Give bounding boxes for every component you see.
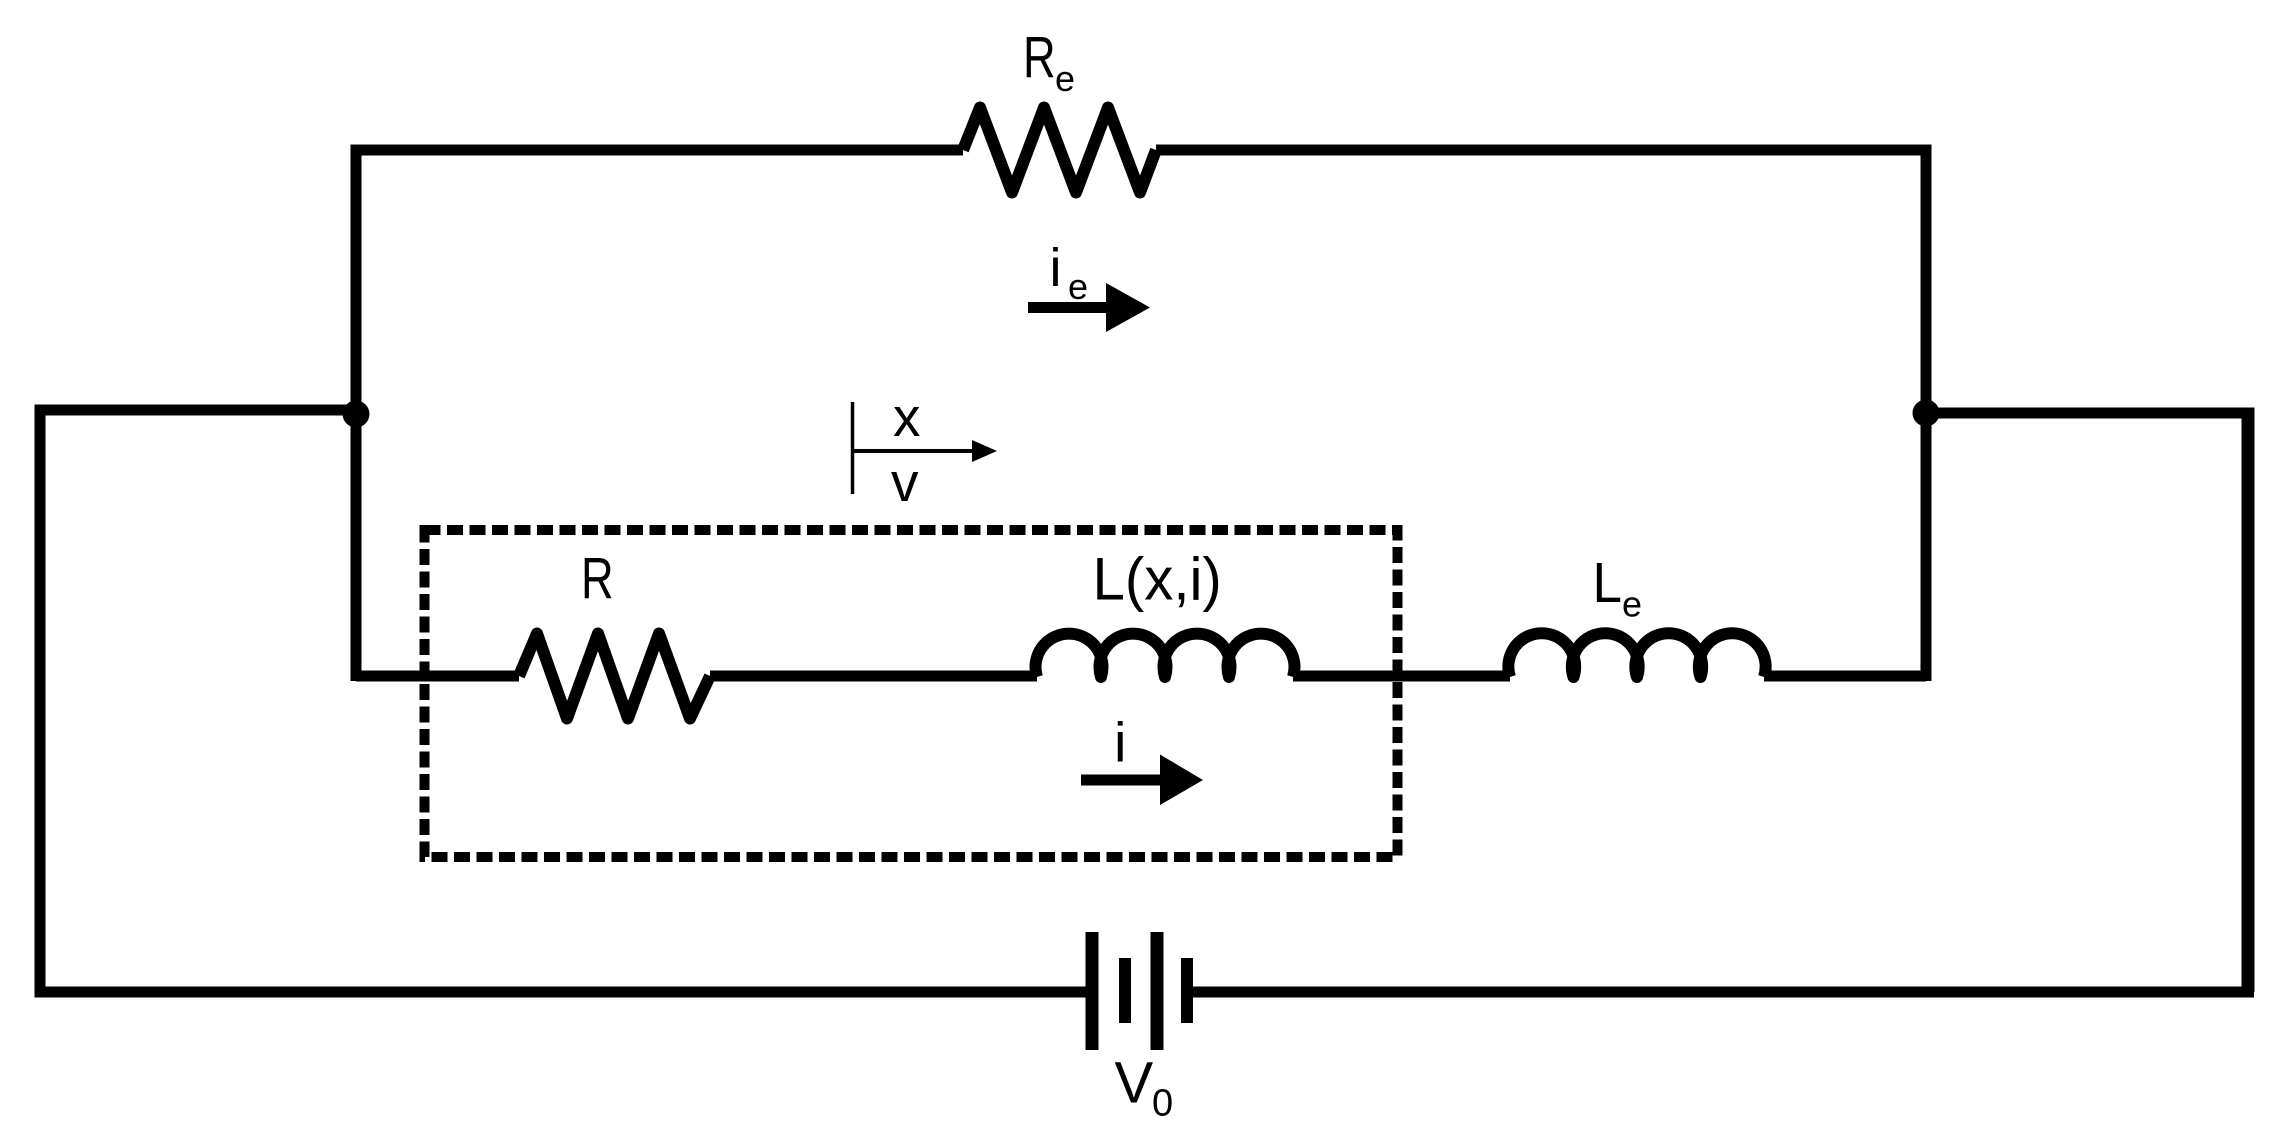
arrow i [1081, 775, 1166, 786]
wire: left branch vertical [351, 145, 362, 682]
resistor Re [963, 108, 1156, 193]
svg-text:e: e [1055, 58, 1075, 99]
svg-text:e: e [1068, 266, 1088, 307]
wire: outer right vertical [2242, 413, 2255, 992]
wire: R to L(x,i) [710, 671, 1037, 682]
dashed box (moving coil assembly) [425, 530, 1398, 857]
svg-text:e: e [1622, 584, 1642, 625]
x/v arrow [853, 449, 979, 453]
wire: top wire left of Re [351, 145, 964, 156]
svg-text:L: L [1593, 550, 1622, 614]
arrow ie [1028, 302, 1112, 313]
svg-text:x: x [893, 386, 921, 448]
node dot left [343, 401, 370, 428]
wire: outer left vertical [35, 405, 46, 993]
wire: L(x,i) to Le [1293, 671, 1510, 682]
wire: left node to outer-left top corner [40, 405, 356, 416]
svg-text:0: 0 [1152, 1083, 1173, 1125]
inductor Le [1508, 633, 1765, 677]
svg-text:R: R [581, 547, 614, 612]
wire: bottom wire right of battery [1193, 987, 2254, 998]
wire: right node to outer-right corner [1926, 408, 2255, 419]
svg-text:v: v [891, 451, 919, 513]
wire: bottom wire left of battery [35, 987, 1087, 998]
battery V0 plate 2 (short) [1119, 958, 1131, 1023]
wire: right branch vertical [1921, 145, 1932, 682]
battery V0 plate 1 (long) [1086, 932, 1099, 1050]
battery V0 plate 3 (long) [1151, 932, 1164, 1050]
x/v coordinate datum line [851, 402, 855, 494]
node dot right [1913, 400, 1940, 427]
svg-text:V: V [1115, 1051, 1154, 1116]
inductor L(x,i) [1036, 634, 1295, 677]
battery V0 plate 4 (short) [1181, 958, 1193, 1023]
resistor R [519, 634, 710, 719]
svg-text:i: i [1050, 238, 1062, 298]
svg-text:R: R [1023, 26, 1056, 91]
wire: top wire right of Re [1156, 145, 1926, 156]
wire: middle branch left of R [356, 671, 519, 682]
wire: Le to right branch vertical [1764, 671, 1926, 682]
svg-text:L(x,i): L(x,i) [1093, 545, 1222, 613]
svg-text:i: i [1114, 711, 1126, 774]
